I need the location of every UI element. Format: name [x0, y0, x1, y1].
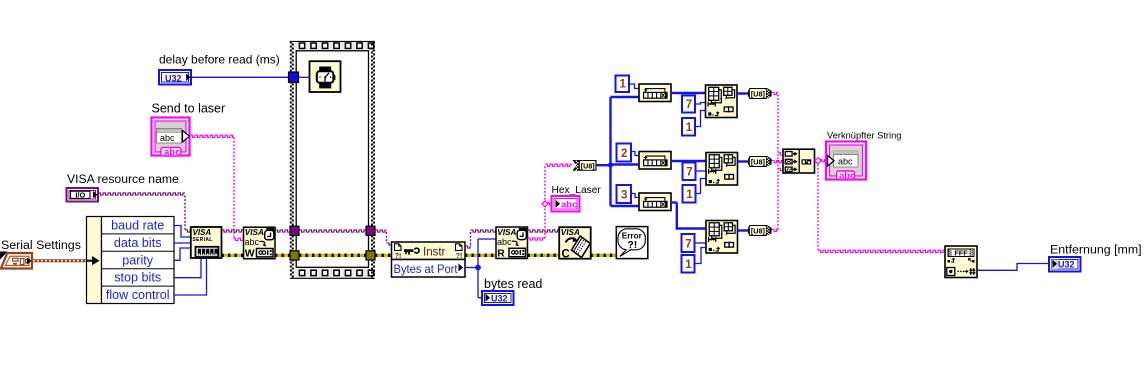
- tunnel: blue (delay) on left border: [289, 72, 299, 83]
- node: Array Subset 3: [706, 221, 738, 254]
- svg-text:U32: U32: [165, 74, 182, 84]
- wire: constant 1 to Array Subset 2 length: [696, 179, 707, 194]
- node: VISA Configure Serial Port: [191, 227, 222, 258]
- svg-text:VISA: VISA: [245, 228, 264, 237]
- svg-text:VISA resource name: VISA resource name: [67, 172, 179, 186]
- label: Verknüpfter String: [827, 131, 901, 141]
- constant: 1 (row 1): [616, 76, 630, 93]
- svg-text:bytes read: bytes read: [484, 277, 542, 291]
- svg-text:abc: abc: [839, 171, 855, 182]
- svg-text:1: 1: [686, 122, 693, 134]
- svg-text:SERIAL: SERIAL: [193, 237, 213, 243]
- label: bytes read: [484, 277, 542, 291]
- wire: VISA Close to error handler (olive): [591, 254, 617, 257]
- constant: 1 length (row 2): [683, 185, 696, 203]
- svg-text:[U8]: [U8]: [751, 227, 765, 236]
- wire: VISA serial to VISA Write (purple VISA resource): [222, 230, 244, 232]
- svg-text:1: 1: [686, 189, 693, 201]
- wire: Index Array 1 to Array Subset 1: [671, 92, 706, 94]
- constant: 1 length (row 3): [682, 255, 695, 273]
- svg-text:abc: abc: [838, 157, 853, 167]
- svg-text:abc: abc: [164, 147, 180, 158]
- node: Array Subset 2: [706, 153, 738, 186]
- wire: error olive through sequence: [299, 254, 366, 257]
- wire: concatenated string to indicator and Hex-to-Number (pink, junction diamond): [815, 158, 946, 253]
- svg-text:Verknüpfter String: Verknüpfter String: [827, 131, 901, 141]
- svg-text:abc: abc: [497, 237, 512, 247]
- svg-text:1: 1: [685, 259, 692, 271]
- svg-text:U32: U32: [1058, 260, 1075, 270]
- svg-text:I/O: I/O: [75, 191, 85, 200]
- node: Index Array 3: [639, 193, 671, 211]
- svg-text:1: 1: [620, 79, 627, 91]
- tunnel: olive left: [290, 251, 299, 260]
- wire: number to Entfernung indicator (blue): [977, 264, 1049, 271]
- wire: VISA Write to sequence (error olive): [275, 254, 290, 257]
- node: VISA Read: [496, 227, 528, 260]
- wire: VISA Read to Close (error olive): [528, 254, 560, 257]
- constant: 7 (row 3): [682, 234, 695, 252]
- wire: Array Subset 3 to Byte Array To String 3: [738, 229, 747, 231]
- wire: purple sequence to property node: [375, 230, 392, 245]
- wire: Index Array 2 to Array Subset 2: [671, 160, 706, 162]
- wire: VISA Read data to String-to-Byte-Array and Hex_Laser (pink, junction diamond): [528, 164, 573, 240]
- svg-text:[U8]: [U8]: [581, 162, 595, 171]
- wire: blue tunnel to Wait (ms): [299, 76, 310, 78]
- svg-text:delay before read (ms): delay before read (ms): [159, 53, 280, 67]
- node: Byte Array To String 3: [747, 225, 772, 236]
- svg-text:parity: parity: [122, 253, 153, 267]
- svg-text:Entfernung [mm]: Entfernung [mm]: [1050, 243, 1142, 257]
- node: VISA Write: [244, 227, 276, 260]
- svg-text:[U8]: [U8]: [751, 90, 765, 99]
- wire: Array Subset 1 to Byte Array To String 1: [737, 92, 747, 94]
- wire: constant 7 to Array Subset 2: [696, 170, 707, 172]
- node: Wait (ms) clock inside sequence: [310, 61, 341, 92]
- node: String To Byte Array: [573, 160, 597, 171]
- wire: olive sequence to property node: [375, 254, 392, 257]
- tunnel: purple right: [366, 226, 375, 235]
- node: Concatenate Strings: [783, 149, 815, 173]
- node: Byte Array To String 1: [747, 88, 772, 99]
- tunnel: purple left: [290, 226, 299, 235]
- svg-text:data bits: data bits: [114, 236, 162, 250]
- indicator: bytes read U32: [482, 291, 514, 305]
- svg-text:2: 2: [621, 148, 627, 160]
- node: Hexadecimal String To Number (FFF): [945, 246, 977, 278]
- svg-text:W: W: [245, 249, 255, 260]
- svg-text:?!: ?!: [456, 253, 463, 260]
- constant: 7 (row 2): [683, 163, 696, 181]
- node: Index Array 1: [639, 84, 671, 102]
- wire: VISA Read to Close (purple): [528, 230, 560, 232]
- control: delay before read (ms) U32: [159, 70, 191, 85]
- svg-text:Serial Settings: Serial Settings: [1, 238, 81, 252]
- svg-text:U32: U32: [491, 294, 508, 304]
- wire: VISA resource name to VISA serial (purple): [98, 193, 191, 232]
- node: Simple Error Handler (Error?!): [616, 227, 648, 259]
- wire: VISA Write to sequence (purple): [275, 230, 290, 232]
- wire: constant 7 to Array Subset 3: [695, 242, 707, 244]
- control: VISA resource name I/O: [67, 188, 99, 202]
- wire: byte array trunk to three Index Array nodes (blue, junction): [597, 97, 640, 206]
- svg-text:FFF: FFF: [954, 248, 968, 257]
- svg-text:VISA: VISA: [561, 228, 580, 237]
- svg-text:3: 3: [621, 190, 627, 202]
- wire: delay U32 to sequence tunnel (blue): [191, 76, 289, 78]
- svg-text:VISA: VISA: [497, 228, 516, 237]
- control: Serial Settings cluster: [0, 252, 32, 269]
- svg-text:abc: abc: [245, 237, 260, 247]
- node: Unbundle By Name (baud rate/data bits/parity/stop bits/flow control): [87, 217, 175, 304]
- label: Serial Settings: [1, 238, 81, 252]
- wire: constant 1 to Array Subset 1 length: [695, 111, 706, 127]
- svg-text:?!: ?!: [395, 253, 402, 260]
- wire: error olive property to VISA Read: [465, 254, 496, 257]
- label: Send to laser: [152, 102, 226, 116]
- svg-text:7: 7: [685, 239, 691, 251]
- label: Entfernung [mm]: [1050, 243, 1142, 257]
- svg-text:VISA: VISA: [193, 228, 212, 237]
- wire: VISA serial to VISA Write (error, olive dashed): [222, 254, 244, 257]
- wire: constant 2 to Index Array 2: [631, 152, 639, 156]
- svg-text:flow control: flow control: [106, 288, 170, 302]
- svg-text:?!: ?!: [627, 239, 637, 251]
- wire: constant 1 to Array Subset 3 length: [695, 248, 707, 264]
- svg-text:Hex_Laser: Hex_Laser: [552, 185, 602, 196]
- wire: Array Subset 2 to Byte Array To String 2: [738, 160, 748, 162]
- constant: 3 (row 3): [617, 185, 632, 203]
- wire: purple VISA resource through sequence: [299, 230, 366, 232]
- svg-text:7: 7: [686, 99, 692, 111]
- wire: constant 7 to Array Subset 1: [695, 103, 706, 105]
- wire: Serial Settings cluster to unbundle (brown dotted): [33, 259, 88, 262]
- tunnel: olive right: [366, 251, 375, 260]
- svg-text:stop bits: stop bits: [114, 271, 161, 285]
- node: property node Instr / Bytes at Port: [392, 242, 466, 277]
- svg-text:[U8]: [U8]: [751, 158, 765, 167]
- wire: byte-to-string 3 to concatenate (pink): [772, 168, 783, 231]
- wire: constant 3 to Index Array 3: [631, 194, 639, 198]
- constant: 7 (row 1): [682, 96, 695, 113]
- wire: Send to laser to VISA Write (pink string): [190, 135, 244, 240]
- node: VISA Close: [559, 227, 591, 260]
- label: VISA resource name: [67, 172, 179, 186]
- svg-text:7: 7: [686, 167, 692, 179]
- svg-text:C: C: [562, 249, 570, 261]
- indicator: Verkn&#252;pfter String: [826, 142, 866, 182]
- svg-text:Instr: Instr: [423, 246, 446, 258]
- wires: unbundle outputs to VISA Configure Serial Port (blue): [174, 226, 207, 296]
- constant: 2 (row 2): [617, 144, 632, 162]
- svg-text:abc: abc: [160, 133, 175, 143]
- wire: byte-to-string 2 to concatenate (pink): [772, 161, 783, 163]
- svg-text:abc: abc: [561, 200, 577, 211]
- indicator: Entfernung [mm] U32: [1049, 257, 1081, 272]
- node: Array Subset 1: [706, 85, 738, 118]
- wire: byte-to-string 1 to concatenate (pink): [772, 92, 783, 229]
- wire: Index Array 3 to Array Subset 3: [671, 203, 706, 229]
- indicator: Hex_Laser string: [552, 196, 580, 212]
- svg-text:R: R: [497, 249, 505, 260]
- control: Send to laser string: [152, 118, 190, 159]
- wire: property ref out up to VISA Read (purple): [465, 230, 496, 248]
- label: Hex_Laser: [552, 185, 602, 196]
- structure: flat sequence (film strip frame): [290, 41, 376, 279]
- node: Index Array 2: [639, 152, 671, 170]
- svg-text:baud rate: baud rate: [111, 219, 164, 233]
- label: delay before read (ms): [159, 53, 280, 67]
- node: Byte Array To String 2: [747, 156, 772, 167]
- wire: Bytes at Port to VISA Read count and bytes read (blue, junction): [465, 239, 496, 298]
- wire: constant 1 to Index Array 1: [629, 84, 639, 89]
- constant: 1 length (row 1): [682, 118, 695, 136]
- svg-text:Send to laser: Send to laser: [152, 102, 226, 116]
- svg-text:Bytes at Port: Bytes at Port: [394, 262, 459, 276]
